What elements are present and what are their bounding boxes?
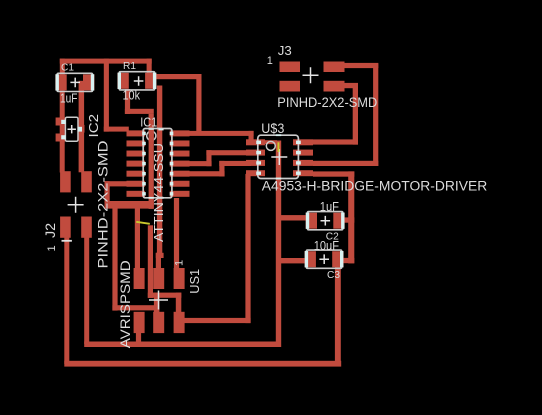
IC1 silk tick R3 [170, 152, 174, 155]
svg-text:C1: C1 [61, 62, 74, 74]
connector J3 pad 3 [280, 81, 301, 92]
svg-text:J3: J3 [278, 43, 292, 58]
capacitor C2 pad 2 [333, 213, 344, 229]
IC1 pad R6 [170, 181, 190, 187]
R1 origin cross [134, 76, 144, 86]
wire beta under IC1 to ground bus [149, 114, 154, 209]
IC1 pin1 circle [147, 131, 156, 140]
wire beta over IC1 pin1 circle [149, 130, 154, 143]
wire ground bus under IC1 [105, 201, 154, 209]
J2 pin1 tick [62, 240, 72, 242]
svg-text:A4953-H-BRIDGE-MOTOR-DRIVER: A4953-H-BRIDGE-MOTOR-DRIVER [262, 179, 488, 194]
IC1 silk tick L4 [142, 162, 146, 165]
wire J3 pad4 stub [344, 83, 358, 88]
IC2 origin cross [68, 125, 76, 133]
IC1 pad R1 [170, 130, 190, 136]
IC1 silk patch bottom alpha [158, 197, 163, 199]
wire ground bus drop toward US1 pad B1 [112, 204, 117, 311]
svg-text:U$3: U$3 [261, 120, 284, 136]
U$3 pad L3 [246, 160, 265, 166]
C3 origin cross [319, 254, 329, 264]
IC1 pad L7 [127, 191, 146, 197]
wire IC1 pin6 riser to ground bus [105, 181, 110, 208]
IC2 silk tick pad1 [61, 120, 65, 124]
IC1 silk tick L7 [142, 192, 146, 195]
wire US1 pad B3 to U$3 L4 net [181, 318, 251, 323]
op-amp U$3 outline [258, 135, 299, 178]
wire U$3 R4 drop to C2 C3 right pads [348, 171, 354, 263]
IC1 silk tick L5 [142, 172, 146, 175]
wire C3 right pad drop to rail H2 [335, 267, 341, 365]
wire J3 pad4 vertical [353, 83, 358, 145]
capacitor C2 pad 1 [306, 213, 317, 229]
IC1 silk tick L1 [142, 132, 146, 135]
resistor R1 pad 1 [117, 73, 128, 89]
wire IC1 row1 to U$3 pad L1 [189, 131, 254, 136]
IC1 pad L5 [127, 171, 146, 177]
wire jog up to U$3 L3 level [219, 161, 224, 177]
wire R1 right pad toward IC1 row1 [156, 74, 202, 79]
US1 origin cross [149, 291, 168, 310]
connector J3 pad 2 [324, 62, 345, 73]
IC1 silk tick R7 [170, 192, 174, 195]
U$3 pad L4 [246, 170, 265, 176]
wire into U$3 pad L3 [219, 161, 251, 166]
wire IC1 row4 stub right [189, 161, 212, 166]
U$3 pad R1 [293, 139, 313, 145]
wire into IC1 pin6 pad [105, 181, 128, 186]
wire jog up to U$3 L2 level [206, 150, 211, 166]
IC2 outline [65, 117, 78, 141]
J3 origin cross [303, 67, 319, 83]
IC1 silk tick R2 [170, 142, 174, 145]
capacitor C1 pad 2 [83, 74, 94, 90]
connector J2 pad 1 [60, 171, 71, 192]
svg-text:PINHD-2X2-SMD: PINHD-2X2-SMD [277, 95, 377, 110]
IC1 pad L3 [127, 151, 146, 157]
svg-text:1uF: 1uF [60, 92, 78, 106]
wire U$3 pad L4 long drop [245, 174, 250, 323]
connector US1 pad B1 [134, 312, 145, 333]
connector US1 pad B3 [174, 312, 185, 333]
R1 outline [119, 72, 154, 90]
wire VCC drop toward IC1 pin1 [104, 59, 109, 132]
wire riser into US1 pad B2 [154, 293, 160, 313]
wire VCC top rail from C1 to R1 [60, 59, 152, 64]
U$3 silk tick R4 [296, 172, 301, 175]
IC2 silk tick pad2 [61, 135, 65, 139]
R1 silk band left [118, 73, 121, 89]
connector US1 pad T3 [174, 268, 185, 289]
connector US1 pad B2 [153, 312, 164, 333]
svg-text:1: 1 [173, 260, 185, 266]
transistor IC2 pad 1 [56, 118, 66, 126]
wire US1 bottom row link [148, 293, 182, 298]
wire U$3 pad L1 to center vertical bridge [265, 140, 278, 144]
R1 silk band right [153, 73, 156, 89]
wire US1 pad B1 drop to rail H1 [136, 332, 141, 345]
U$3 pad L1 [246, 139, 265, 145]
svg-text:R1: R1 [123, 60, 136, 72]
U$3 pad R4 [293, 170, 313, 176]
IC1 silk tick R1 [170, 132, 174, 135]
U$3 silk tick R2 [296, 151, 301, 154]
wire into US1 pad B1 [112, 305, 159, 310]
wire elbow down into U$3 pad L1 [249, 131, 254, 145]
IC1 silk patch bottom beta [149, 197, 154, 199]
svg-text:1: 1 [46, 245, 58, 251]
IC1 silk patch top alpha [158, 129, 163, 131]
IC1 pad R3 [170, 151, 190, 157]
IC1 pad L2 [127, 140, 146, 146]
U$3 pad R2 [293, 150, 313, 156]
airwire inside U$3 [278, 142, 280, 152]
wire U$3 pad R3 to J3 pad2 [313, 161, 378, 166]
svg-text:1: 1 [267, 55, 273, 67]
U$3 silk tick R3 [296, 161, 301, 164]
wire horizontal rail H1 [84, 342, 281, 348]
C1 silk band right [91, 74, 94, 90]
wire alpha into US1 pad T2 [156, 253, 161, 269]
resistor R1 pad 2 [145, 73, 156, 89]
wire ground bus drop to US1 pad T1 [135, 204, 140, 269]
IC1 silk patch top beta [149, 129, 154, 131]
U$3 silk tick L4 [256, 172, 261, 175]
svg-text:PINHD-2X2-SMD: PINHD-2X2-SMD [95, 140, 110, 268]
wire IC1 row7 down to US1 pad T3 [174, 198, 179, 269]
connector J2 pad 3 [60, 217, 71, 238]
U$3 pad L2 [246, 150, 265, 156]
svg-text:IC2: IC2 [87, 114, 101, 138]
wire C3 right pad stub [339, 258, 354, 263]
C2 outline [308, 212, 343, 230]
connector J2 pad 4 [81, 217, 92, 238]
IC2 silk tick pad3 [78, 127, 82, 132]
IC1 pad R7 [170, 191, 190, 197]
C1 outline [57, 73, 92, 91]
connector US1 pad T2 [153, 268, 164, 289]
connector J3 pad 1 [280, 62, 301, 73]
capacitor C3 pad 2 [332, 251, 343, 267]
transistor IC2 pad 3 [78, 125, 85, 133]
C2 origin cross [321, 216, 331, 226]
svg-text:ATTINY44-SSU: ATTINY44-SSU [151, 143, 166, 242]
op-amp IC1 outline [143, 129, 172, 198]
wire into U$3 pad L2 [206, 150, 251, 155]
U$3 pin1 circle [266, 141, 275, 150]
C1 origin cross [70, 78, 80, 88]
IC1 pad L4 [127, 161, 146, 167]
wire vertical through U$3 to C2 C3 and H1 [276, 141, 281, 348]
IC1 silk tick R4 [170, 162, 174, 165]
wire C2 right pad stub [340, 217, 354, 222]
wire alpha from R1 right pad down under IC1 [157, 86, 162, 256]
IC1 pad R2 [170, 140, 190, 146]
connector J3 pad 4 [324, 81, 345, 92]
U$3 origin cross [271, 149, 287, 165]
IC1 silk tick L6 [142, 182, 146, 185]
svg-text:AVRISPSMD: AVRISPSMD [117, 260, 133, 348]
svg-text:10uF: 10uF [314, 239, 340, 253]
wire IC1 row5 stub right [189, 171, 225, 176]
wire VCC entry into IC1 pin1 pad [104, 127, 129, 132]
U$3 silk patch top center [276, 134, 281, 136]
svg-text:J2: J2 [43, 223, 58, 238]
wire R1 left pad jog right [125, 109, 154, 114]
wire drop into IC1 row1 net [196, 74, 201, 134]
U$3 silk tick L3 [256, 161, 261, 164]
connector J2 pad 2 [81, 171, 92, 192]
wire J3 pad2 stub [344, 63, 378, 68]
wire J3 pad2 vertical [373, 63, 378, 166]
wire C1 left pad riser to VCC rail [60, 59, 65, 75]
svg-text:10k: 10k [123, 89, 141, 103]
capacitor C1 pad 1 [55, 74, 66, 90]
wire J2 pad4 drop to rail H1 [84, 237, 89, 344]
wire R1 left pad drop [125, 89, 130, 114]
airwire near IC1 [136, 222, 150, 224]
IC1 pad L6 [127, 181, 146, 187]
wire feed down to US1 bottom row [148, 225, 153, 298]
C2 silk band left [306, 213, 309, 229]
U$3 silk tick L1 [256, 141, 261, 144]
IC1 silk tick L3 [142, 152, 146, 155]
capacitor C3 pad 1 [305, 251, 316, 267]
connector US1 pad T1 [134, 268, 145, 289]
svg-text:C3: C3 [327, 269, 340, 281]
IC1 silk tick R6 [170, 182, 174, 185]
wire J2 pad3 drop to rail H2 [64, 237, 69, 364]
J2 origin cross [68, 197, 84, 213]
wire drop into US1 pad B3 [176, 293, 182, 313]
C3 silk band right [340, 251, 343, 267]
U$3 pad R3 [293, 160, 313, 166]
wire U$3 pad R1 to J3 pad4 [313, 139, 358, 144]
svg-text:US1: US1 [187, 269, 202, 294]
svg-text:IC1: IC1 [140, 115, 157, 129]
U$3 silk patch bottom center [276, 178, 281, 180]
wire U$3 pad R4 stub right [313, 171, 354, 176]
IC1 silk tick R5 [170, 172, 174, 175]
wire center net to C3 left pad [278, 258, 310, 263]
wire VCC rail drop into R1 right pad [147, 59, 152, 75]
C2 silk band right [341, 213, 344, 229]
wire horizontal rail H2 [64, 361, 341, 367]
svg-text:1uF: 1uF [320, 200, 340, 214]
wire center net to C2 left pad [278, 215, 311, 220]
C3 outline [306, 250, 341, 268]
IC1 silk tick L2 [142, 142, 146, 145]
IC1 pad R5 [170, 171, 190, 177]
wire C1 right pad down to J2 pad2 [79, 81, 85, 173]
U$3 silk tick L2 [256, 151, 261, 154]
U$3 silk tick R1 [296, 141, 301, 144]
transistor IC2 pad 2 [56, 134, 66, 142]
C1 silk band left [56, 74, 59, 90]
wire C1 left pad down to J2 pad1 [60, 91, 65, 173]
IC1 pad R4 [170, 161, 190, 167]
IC1 pad L1 [127, 130, 146, 136]
wire alpha jog left [156, 253, 164, 258]
C3 silk band left [305, 251, 308, 267]
